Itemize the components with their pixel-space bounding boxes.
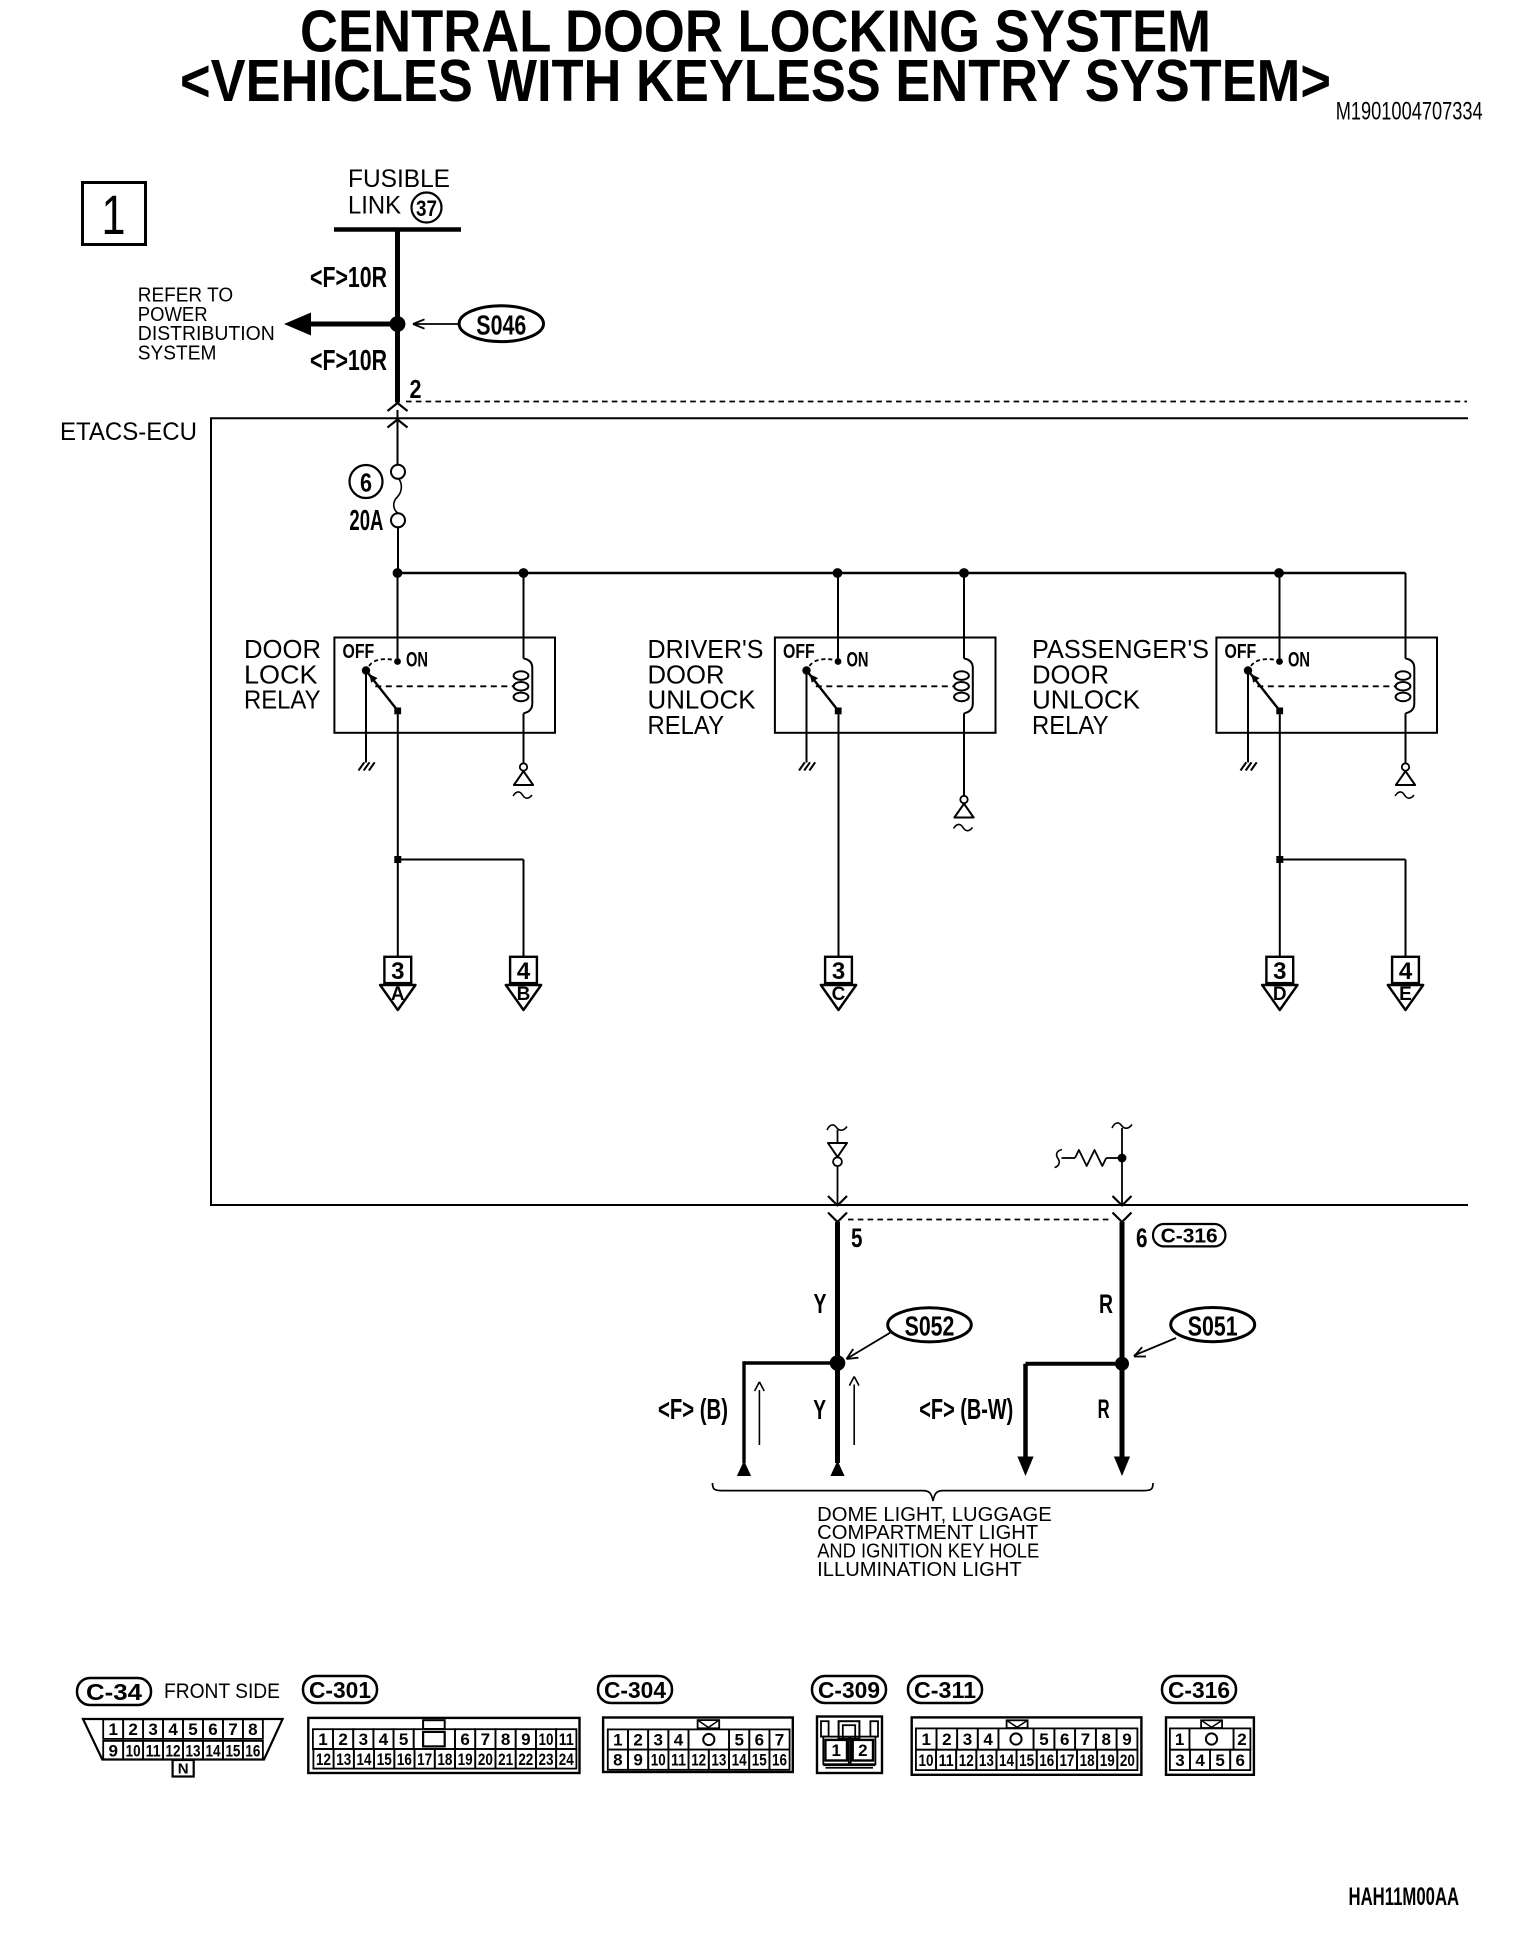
node bus junction 3 (833, 568, 843, 578)
relay coil K1 (524, 659, 533, 714)
fusible link bar (334, 227, 461, 232)
svg-text:6: 6 (360, 468, 372, 498)
svg-text:3: 3 (391, 958, 404, 985)
svg-text:3: 3 (1273, 958, 1286, 985)
svg-text:C-316: C-316 (1161, 1225, 1218, 1247)
svg-text:1: 1 (318, 1730, 327, 1749)
node S051 junction (1115, 1357, 1129, 1371)
svg-text:ON: ON (847, 649, 869, 672)
svg-text:8: 8 (1102, 1730, 1111, 1749)
passenger's door unlock relay K3 box (1216, 638, 1437, 733)
wire pin 6 trunk R (1120, 1222, 1125, 1457)
svg-text:17: 17 (1059, 1751, 1074, 1770)
svg-text:20A: 20A (349, 505, 383, 537)
svg-text:4: 4 (168, 1720, 178, 1739)
bus wire (398, 572, 1406, 574)
arrow S051 pointer (1134, 1338, 1176, 1356)
svg-text:N: N (178, 1760, 189, 1777)
wire bus to relay coil (963, 573, 965, 659)
svg-text:1: 1 (108, 1720, 117, 1739)
svg-text:6: 6 (755, 1731, 764, 1750)
svg-text:OFF: OFF (1225, 641, 1257, 663)
svg-text:C: C (832, 984, 846, 1005)
svg-text:E: E (1399, 984, 1412, 1005)
driver's door unlock relay K2 box (775, 638, 996, 733)
wire relay common to ground (365, 674, 367, 763)
svg-text:21: 21 (498, 1750, 513, 1769)
node resistor junction (1118, 1154, 1127, 1163)
svg-text:19: 19 (1100, 1751, 1115, 1770)
svg-text:5: 5 (1215, 1751, 1224, 1770)
svg-text:6: 6 (1060, 1730, 1069, 1749)
svg-text:RELAY: RELAY (1032, 710, 1109, 740)
svg-text:20: 20 (478, 1750, 493, 1769)
splice S052 (888, 1308, 972, 1342)
brace dome light group (713, 1483, 1154, 1501)
arrow up branch end (737, 1461, 751, 1477)
svg-text:2: 2 (410, 374, 422, 404)
svg-text:A: A (391, 984, 405, 1005)
svg-text:5: 5 (734, 1731, 743, 1750)
relay switch lever (1248, 671, 1280, 711)
circled 37 (412, 193, 442, 223)
svg-text:RELAY: RELAY (648, 710, 725, 740)
relay contact throw arc (1251, 659, 1276, 666)
svg-text:1: 1 (921, 1730, 930, 1749)
relay contact OFF node (1244, 666, 1252, 674)
wire internal to pin 5 (837, 1166, 839, 1204)
internal wire cut symbol (1112, 1123, 1132, 1128)
svg-text:16: 16 (245, 1741, 260, 1760)
svg-text:3: 3 (359, 1730, 368, 1749)
svg-text:9: 9 (633, 1751, 642, 1770)
svg-text:4: 4 (517, 958, 531, 985)
svg-text:SYSTEM: SYSTEM (138, 342, 217, 364)
node output junction (394, 856, 401, 863)
svg-text:16: 16 (1039, 1751, 1054, 1770)
coil return page symbol (1402, 763, 1409, 770)
wire relay coil down (523, 713, 525, 763)
svg-text:14: 14 (732, 1751, 747, 1770)
node S052 junction (830, 1355, 846, 1371)
connector C-301 label (303, 1676, 377, 1703)
node bus junction 4 (959, 568, 969, 578)
svg-text:2: 2 (128, 1720, 137, 1739)
svg-text:12: 12 (959, 1751, 974, 1770)
svg-text:5: 5 (399, 1730, 408, 1749)
wire relay common to ground (806, 674, 808, 763)
wire relay common to ground (1247, 674, 1249, 763)
wire relay output (838, 714, 840, 957)
door lock relay K1 box (334, 638, 555, 733)
svg-text:<VEHICLES WITH KEYLESS ENTRY S: <VEHICLES WITH KEYLESS ENTRY SYSTEM> (180, 48, 1331, 114)
current direction arrow 2 (853, 1385, 855, 1446)
wire bus to relay contact (837, 573, 839, 658)
svg-text:C-304: C-304 (604, 1677, 666, 1703)
resistor internal R (1055, 1150, 1063, 1168)
connector C-301 (308, 1718, 579, 1773)
connector triangle D (1262, 985, 1297, 1010)
svg-text:4: 4 (674, 1731, 684, 1750)
wire bus to relay contact (1279, 573, 1281, 658)
connector C-309 (817, 1717, 882, 1774)
svg-text:10: 10 (126, 1741, 141, 1760)
svg-text:23: 23 (539, 1750, 554, 1769)
splice S046 (459, 306, 543, 342)
svg-text:2: 2 (1237, 1730, 1246, 1749)
relay actuation dashed link (1257, 685, 1396, 687)
connector triangle C (821, 985, 856, 1010)
svg-text:12: 12 (316, 1750, 331, 1769)
svg-text:11: 11 (559, 1730, 574, 1749)
svg-text:22: 22 (518, 1750, 533, 1769)
svg-text:2: 2 (338, 1730, 347, 1749)
wire output branch (398, 859, 524, 861)
svg-text:13: 13 (711, 1751, 726, 1770)
svg-text:37: 37 (416, 196, 437, 221)
svg-text:12: 12 (691, 1751, 706, 1770)
svg-text:C-311: C-311 (914, 1677, 976, 1703)
relay contact ON node (835, 658, 842, 665)
svg-text:C-34: C-34 (86, 1679, 142, 1705)
svg-text:1: 1 (831, 1741, 840, 1760)
arrow S046 pointer (414, 323, 458, 325)
svg-text:6: 6 (460, 1730, 469, 1749)
svg-text:FRONT SIDE: FRONT SIDE (164, 1680, 280, 1703)
svg-text:10: 10 (539, 1730, 554, 1749)
circled 6 fuse number (350, 465, 383, 498)
svg-text:R: R (1099, 1289, 1113, 1319)
ground K2 (799, 762, 805, 770)
svg-text:7: 7 (228, 1720, 237, 1739)
svg-text:14: 14 (999, 1751, 1014, 1770)
svg-text:OFF: OFF (783, 641, 815, 663)
svg-text:11: 11 (939, 1751, 954, 1770)
connector C-311 (912, 1717, 1142, 1774)
wire bus to relay coil (1405, 573, 1407, 659)
svg-text:19: 19 (458, 1750, 473, 1769)
svg-text:5: 5 (851, 1223, 863, 1253)
wire fusible link to fuse (397, 410, 399, 465)
svg-text:24: 24 (559, 1750, 574, 1769)
connector C-316 label (1162, 1676, 1236, 1703)
svg-text:3: 3 (654, 1731, 663, 1750)
svg-text:7: 7 (1081, 1730, 1090, 1749)
connector C-311 label (908, 1676, 982, 1703)
svg-text:11: 11 (146, 1741, 161, 1760)
arrow to power distribution system (300, 322, 398, 327)
svg-text:11: 11 (671, 1751, 686, 1770)
relay actuation dashed link (816, 685, 955, 687)
wire output branch (1280, 859, 1406, 861)
terminal 3 (825, 957, 852, 983)
svg-text:14: 14 (205, 1741, 220, 1760)
connector C-316 pin label (1153, 1224, 1225, 1246)
connector C-316 (1166, 1717, 1254, 1774)
svg-text:C-316: C-316 (1168, 1677, 1230, 1703)
node output junction (1276, 856, 1283, 863)
connector C-34 index tab N (173, 1760, 194, 1777)
svg-text:ON: ON (1288, 649, 1310, 672)
svg-text:C-301: C-301 (309, 1677, 371, 1703)
svg-text:7: 7 (775, 1731, 784, 1750)
svg-text:4: 4 (983, 1730, 993, 1749)
svg-text:10: 10 (651, 1751, 666, 1770)
splice S051 (1171, 1308, 1255, 1342)
dashed connector line pins 5-6 (848, 1219, 1112, 1221)
wire relay output (1279, 714, 1281, 957)
svg-text:9: 9 (521, 1730, 530, 1749)
node bus junction 2 (519, 568, 529, 578)
node bus junction 1 (393, 568, 403, 578)
coil return page symbol (960, 796, 967, 803)
svg-text:16: 16 (397, 1750, 412, 1769)
wire relay coil down (1405, 713, 1407, 763)
arrow down trunk end (1114, 1457, 1130, 1477)
terminal 3 (384, 957, 411, 983)
svg-text:LINK: LINK (348, 192, 401, 220)
internal ground page symbol (827, 1125, 847, 1130)
terminal 4 (1392, 957, 1419, 983)
svg-text:20: 20 (1120, 1751, 1135, 1770)
svg-text:2: 2 (942, 1730, 951, 1749)
svg-text:<F> (B-W): <F> (B-W) (919, 1394, 1013, 1426)
wire exit chevrons pin 5 (828, 1196, 847, 1206)
wire bus to relay contact (397, 573, 399, 658)
svg-text:12: 12 (166, 1741, 181, 1760)
wire battery feed (395, 230, 400, 403)
svg-text:15: 15 (1019, 1751, 1034, 1770)
svg-text:1: 1 (613, 1731, 622, 1750)
svg-text:S046: S046 (476, 310, 526, 341)
relay actuation dashed link (375, 685, 514, 687)
svg-text:18: 18 (1080, 1751, 1095, 1770)
svg-text:S052: S052 (905, 1311, 955, 1342)
connector C-304 (603, 1718, 793, 1773)
svg-text:<F>10R: <F>10R (310, 345, 387, 377)
svg-text:9: 9 (108, 1741, 117, 1760)
svg-text:R: R (1098, 1394, 1110, 1424)
current direction arrow 1 (758, 1390, 760, 1445)
svg-text:M1901004707334: M1901004707334 (1336, 98, 1483, 126)
svg-text:S051: S051 (1188, 1311, 1238, 1342)
svg-text:HAH11M00AA: HAH11M00AA (1349, 1883, 1460, 1911)
terminal 3 (1266, 957, 1293, 983)
svg-text:D: D (1273, 984, 1287, 1005)
relay contact OFF node (362, 666, 370, 674)
wire bus to relay coil (523, 573, 525, 659)
svg-text:4: 4 (379, 1730, 389, 1749)
svg-text:4: 4 (1399, 958, 1413, 985)
relay contact throw arc (810, 659, 835, 666)
relay coil K2 (964, 659, 973, 714)
relay contact throw arc (369, 659, 394, 666)
svg-text:15: 15 (377, 1750, 392, 1769)
svg-text:2: 2 (858, 1741, 867, 1760)
svg-text:ILLUMINATION LIGHT: ILLUMINATION LIGHT (817, 1559, 1022, 1581)
relay switch lever (366, 671, 398, 711)
arrow S052 pointer (848, 1333, 890, 1358)
svg-text:Y: Y (814, 1288, 827, 1319)
wire internal to pin 6 (1121, 1128, 1123, 1204)
svg-text:1: 1 (1175, 1730, 1184, 1749)
svg-text:15: 15 (225, 1741, 240, 1760)
svg-text:C-309: C-309 (818, 1677, 880, 1703)
wire entry chevrons pin 2 (388, 403, 408, 411)
svg-text:3: 3 (832, 958, 845, 985)
svg-text:6: 6 (208, 1720, 217, 1739)
fuse F6 (391, 465, 405, 479)
relay contact ON node (1276, 658, 1283, 665)
ground K1 (359, 762, 365, 770)
coil return page symbol (520, 763, 527, 770)
svg-text:3: 3 (148, 1720, 157, 1739)
svg-text:13: 13 (979, 1751, 994, 1770)
svg-text:10: 10 (918, 1751, 933, 1770)
wire exit chevrons pin 6 (1113, 1196, 1132, 1206)
relay switch lever (807, 671, 839, 711)
svg-text:3: 3 (963, 1730, 972, 1749)
wire pin 5 trunk Y (835, 1222, 840, 1463)
svg-text:8: 8 (501, 1730, 510, 1749)
svg-text:7: 7 (481, 1730, 490, 1749)
page marker 1 (83, 183, 146, 245)
dashed connector boundary line (406, 401, 1467, 403)
wire fuse to bus (397, 527, 399, 573)
ground K3 (1241, 762, 1247, 770)
svg-text:3: 3 (1175, 1751, 1184, 1770)
node bus junction 5 (1274, 568, 1284, 578)
relay coil K3 (1406, 659, 1415, 714)
connector triangle A (380, 985, 415, 1010)
svg-text:<F> (B): <F> (B) (658, 1394, 728, 1426)
connector C-34 label (77, 1678, 151, 1705)
svg-text:FUSIBLE: FUSIBLE (348, 165, 450, 193)
svg-text:16: 16 (772, 1751, 787, 1770)
svg-text:5: 5 (188, 1720, 197, 1739)
svg-text:6: 6 (1136, 1223, 1148, 1253)
ETACS-ECU box (211, 418, 1468, 1205)
connector C-304 label (598, 1676, 672, 1703)
svg-text:18: 18 (437, 1750, 452, 1769)
svg-text:2: 2 (633, 1731, 642, 1750)
svg-text:8: 8 (248, 1720, 257, 1739)
svg-text:RELAY: RELAY (244, 685, 321, 715)
svg-text:1: 1 (102, 183, 126, 246)
svg-text:<F>10R: <F>10R (310, 262, 387, 294)
connector triangle B (506, 985, 541, 1010)
connector C-34 (83, 1719, 283, 1760)
arrow down branch end (1017, 1457, 1033, 1477)
svg-text:ON: ON (406, 649, 428, 672)
terminal 4 (510, 957, 537, 983)
connector C-309 label (812, 1676, 886, 1703)
node S046 junction (390, 316, 406, 332)
svg-text:OFF: OFF (343, 641, 375, 663)
wire branch to dome light feed (744, 1361, 838, 1364)
wire relay output (397, 714, 399, 957)
svg-text:6: 6 (1236, 1751, 1245, 1770)
wire branch right (1026, 1362, 1123, 1366)
svg-text:13: 13 (336, 1750, 351, 1769)
svg-text:14: 14 (356, 1750, 371, 1769)
svg-text:15: 15 (752, 1751, 767, 1770)
wire relay coil down (963, 713, 965, 795)
svg-text:8: 8 (613, 1751, 622, 1770)
relay contact ON node (394, 658, 401, 665)
svg-text:9: 9 (1122, 1730, 1131, 1749)
relay contact OFF node (802, 666, 810, 674)
connector triangle E (1388, 985, 1423, 1010)
svg-text:17: 17 (417, 1750, 432, 1769)
arrow up trunk end (830, 1461, 844, 1477)
svg-text:Y: Y (813, 1394, 826, 1425)
svg-text:B: B (517, 984, 531, 1005)
svg-text:13: 13 (186, 1741, 201, 1760)
svg-text:ETACS-ECU: ETACS-ECU (60, 418, 197, 446)
svg-text:5: 5 (1039, 1730, 1048, 1749)
svg-text:4: 4 (1195, 1751, 1205, 1770)
